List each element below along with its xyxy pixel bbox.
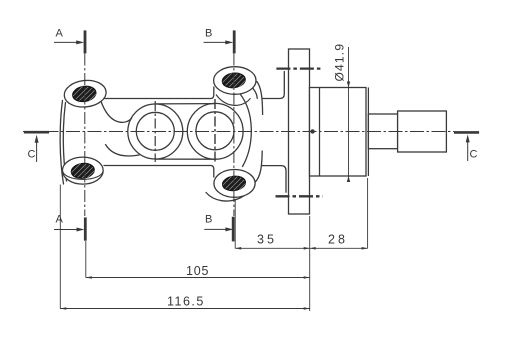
dimension extension lines — [60, 178, 367, 311]
extension from barrel end — [367, 178, 369, 249]
port 1 inner circle — [136, 112, 174, 150]
section marker C right — [454, 132, 479, 161]
svg-text:A: A — [56, 28, 64, 40]
svg-text:28: 28 — [328, 233, 348, 247]
extension from B ear — [234, 199, 236, 249]
boss outline around port 1 — [128, 104, 183, 159]
boss stadium tangent top — [155, 103, 215, 105]
extension from flange face — [309, 216, 311, 311]
mounting ear bottom-left — [62, 157, 103, 184]
port 2 inner circle — [196, 112, 234, 150]
blob right side outline — [241, 95, 252, 167]
svg-text:Ø41.9: Ø41.9 — [333, 43, 347, 82]
port 1 vertical centerline — [154, 101, 156, 162]
fillet bottom-left ear to boss — [106, 145, 140, 157]
top-right ear inner silhouette — [253, 88, 258, 98]
left end face inner arc — [63, 103, 66, 182]
boss stadium tangent bottom — [155, 158, 215, 160]
mounting ear top-right — [214, 67, 256, 95]
svg-text:C: C — [28, 149, 36, 161]
port 2 vertical centerline — [214, 99, 216, 164]
extension from A line — [85, 241, 87, 278]
dimension line 35 / 28 — [235, 247, 367, 250]
body bottom edge right segment — [262, 166, 286, 193]
svg-text:105: 105 — [186, 264, 209, 278]
svg-text:C: C — [470, 148, 478, 160]
section marker C left — [24, 132, 49, 162]
svg-text:B: B — [205, 28, 212, 40]
master cylinder body outline — [60, 72, 286, 202]
svg-text:A: A — [56, 214, 64, 226]
svg-text:35: 35 — [257, 233, 277, 247]
left end face outer arc — [60, 101, 63, 185]
mounting ear bottom-right — [214, 170, 255, 198]
top-right ear right silhouette — [257, 82, 263, 115]
cylinder barrel — [310, 88, 367, 177]
top-right ear under-rim arc — [216, 95, 251, 106]
main centerline — [23, 131, 454, 133]
end boss — [398, 111, 447, 152]
section marker A bottom — [54, 214, 85, 241]
section marker B top — [204, 28, 235, 54]
dimension line 116.5 — [60, 307, 309, 310]
barrel shoulder line — [319, 88, 321, 177]
body top edge right segment — [262, 72, 284, 99]
section marker B bottom — [204, 214, 233, 242]
section line A centerline — [84, 54, 86, 217]
body top edge — [100, 87, 214, 99]
diameter dimension leader — [347, 47, 350, 182]
body bottom edge — [104, 166, 214, 178]
section line B centerline — [233, 54, 235, 217]
dimension line 105 — [86, 276, 310, 279]
barrel end washer line — [367, 88, 369, 177]
svg-text:B: B — [205, 214, 212, 226]
flange bolt centerline bottom — [276, 195, 323, 197]
fillet top-left ear to boss — [101, 100, 132, 122]
mounting ear top-left — [63, 78, 108, 109]
flange bolt centerline top — [276, 67, 322, 69]
step cylinder — [368, 114, 397, 149]
section marker A top — [54, 28, 85, 54]
bottom-right ear lower arc — [206, 187, 252, 202]
mounting flange — [289, 49, 310, 214]
boss outline around port 2 — [187, 103, 243, 159]
centerline junction dot — [310, 129, 314, 133]
svg-text:116.5: 116.5 — [167, 295, 205, 309]
extension from body left — [59, 185, 61, 309]
bottom-right ear right silhouette — [255, 151, 262, 182]
